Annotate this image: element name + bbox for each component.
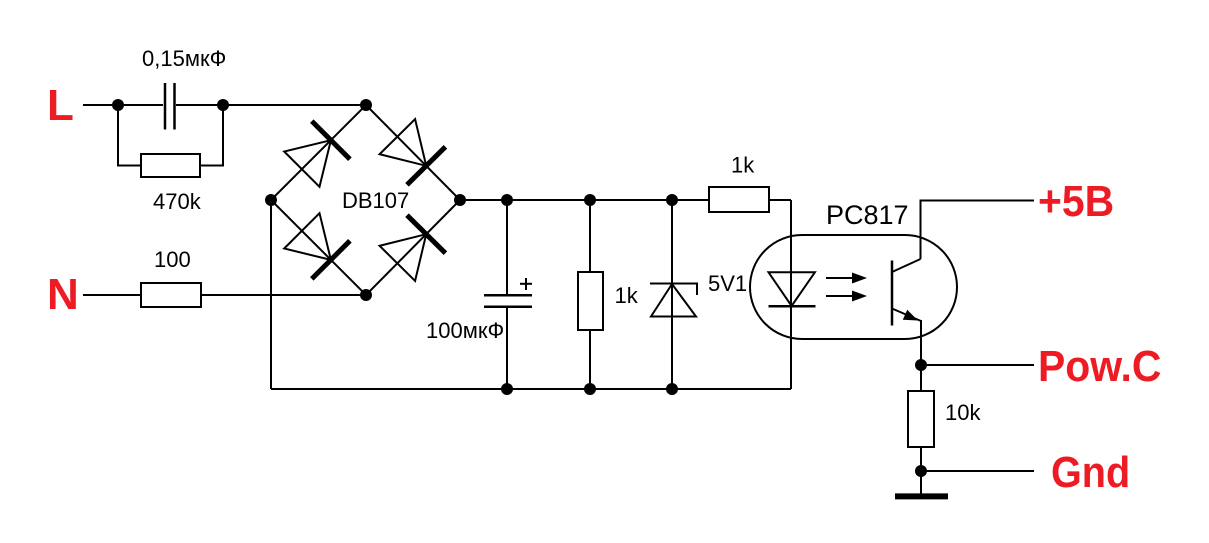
node bridge top bbox=[360, 99, 372, 111]
resistor 100 bbox=[141, 283, 201, 307]
svg-text:N: N bbox=[47, 270, 79, 319]
phototransistor PC817 bbox=[892, 259, 921, 326]
diode D2 top-right bbox=[380, 119, 446, 185]
wire bridge left node down bbox=[270, 200, 272, 389]
wire emitter down bbox=[920, 320, 922, 391]
wire collector to +5B bbox=[921, 201, 1035, 260]
arrow 1 (light) bbox=[826, 273, 867, 284]
ground bbox=[895, 493, 948, 499]
svg-text:1k: 1k bbox=[731, 153, 755, 178]
wire Pow.C bbox=[921, 364, 1034, 366]
arrow 2 (light) bbox=[826, 291, 867, 302]
svg-text:5V1: 5V1 bbox=[708, 271, 747, 296]
node Pow.C junction bbox=[915, 359, 927, 371]
LED inside PC817 bbox=[769, 200, 816, 389]
node bridge right bbox=[454, 194, 466, 206]
svg-text:10k: 10k bbox=[945, 400, 981, 425]
resistor 470k bbox=[141, 154, 200, 177]
wire N lead bbox=[83, 294, 141, 296]
node cap bottom bbox=[501, 383, 513, 395]
svg-text:470k: 470k bbox=[153, 189, 202, 214]
bridge rectifier DB107 diamond bbox=[271, 105, 460, 295]
svg-text:1k: 1k bbox=[615, 283, 639, 308]
svg-text:L: L bbox=[47, 81, 74, 130]
node Gnd junction bbox=[915, 465, 927, 477]
svg-text:0,15мкФ: 0,15мкФ bbox=[142, 46, 226, 71]
optocoupler PC817 body bbox=[750, 235, 957, 339]
node bridge bottom bbox=[360, 289, 372, 301]
wire 470k branch left bbox=[118, 108, 141, 166]
node bridge left bbox=[265, 194, 277, 206]
node 1k bottom bbox=[584, 383, 596, 395]
resistor 10k bbox=[908, 391, 934, 447]
node junction at cap right bbox=[217, 99, 229, 111]
svg-text:PC817: PC817 bbox=[826, 200, 909, 230]
diode D4 bottom-right bbox=[380, 215, 446, 281]
wire top rail bbox=[460, 199, 709, 201]
capacitor 0,15мкФ bbox=[163, 83, 176, 130]
node 1k top bbox=[584, 194, 596, 206]
wire N to bridge bottom node bbox=[201, 294, 366, 296]
wire 10k to ground bbox=[920, 447, 922, 494]
wire L lead bbox=[83, 104, 366, 106]
diode D1 top-left bbox=[284, 121, 350, 187]
svg-text:+5B: +5B bbox=[1038, 178, 1114, 227]
svg-text:DB107: DB107 bbox=[342, 188, 409, 213]
wire bottom rail bbox=[271, 388, 791, 390]
capacitor 100мкФ electrolytic bbox=[484, 200, 532, 389]
svg-text:100: 100 bbox=[154, 247, 191, 272]
node junction at L/cap left bbox=[112, 99, 124, 111]
svg-text:Gnd: Gnd bbox=[1051, 447, 1130, 496]
node zener bottom bbox=[666, 383, 678, 395]
zener diode 5V1 bbox=[650, 200, 697, 389]
svg-text:Pow.C: Pow.C bbox=[1038, 343, 1161, 392]
resistor 1k horizontal bbox=[672, 187, 791, 212]
node zener top bbox=[666, 194, 678, 206]
wire Gnd bbox=[921, 470, 1034, 472]
svg-text:100мкФ: 100мкФ bbox=[426, 318, 504, 343]
node cap top bbox=[501, 194, 513, 206]
diode D3 bottom-left bbox=[284, 213, 350, 279]
resistor 1k vertical bbox=[578, 200, 603, 389]
wire 470k branch right bbox=[200, 108, 223, 166]
